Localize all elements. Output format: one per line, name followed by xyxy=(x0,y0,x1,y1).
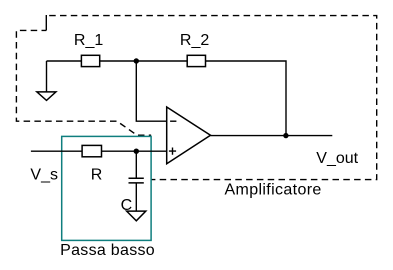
wire capacitor to ground xyxy=(135,183,137,211)
resistor R_1 xyxy=(81,55,99,66)
op-amp minus sign xyxy=(170,120,176,122)
amplifier dashed boundary left step xyxy=(16,30,151,135)
svg-text:R_2: R_2 xyxy=(180,32,209,49)
wire ground riser xyxy=(46,61,48,92)
svg-text:R_1: R_1 xyxy=(74,32,103,49)
wire feedback to inverting input xyxy=(136,61,166,121)
svg-text:V_out: V_out xyxy=(316,150,358,167)
node junction input xyxy=(134,149,139,154)
resistor R xyxy=(82,145,101,156)
ground symbol capacitor xyxy=(127,211,146,221)
op-amp U1 xyxy=(167,107,211,164)
node output junction xyxy=(283,133,288,138)
wire R_2 to feedback corner xyxy=(206,61,287,136)
node junction top xyxy=(134,58,139,63)
wire output xyxy=(211,135,333,137)
svg-text:Amplificatore: Amplificatore xyxy=(225,182,322,199)
resistor R_2 xyxy=(187,55,205,66)
passa basso teal box xyxy=(62,136,151,240)
capacitor C xyxy=(129,178,144,183)
svg-text:V_s: V_s xyxy=(30,167,58,184)
svg-text:R: R xyxy=(91,167,103,184)
amplifier dashed boundary top-left notch vertical xyxy=(45,15,47,30)
wire to capacitor xyxy=(135,151,137,177)
wire R_1 to R_2 xyxy=(100,60,188,62)
wire V_s input xyxy=(31,150,167,152)
amplifier dashed boundary top/right/bottom xyxy=(49,16,377,180)
svg-text:Passa basso: Passa basso xyxy=(60,242,155,259)
wire ground to R_1 xyxy=(47,60,82,62)
ground symbol left xyxy=(37,92,56,101)
op-amp plus sign xyxy=(169,148,176,155)
